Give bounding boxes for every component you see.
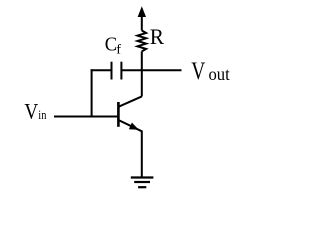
resistor R	[138, 31, 147, 52]
supply arrow (VCC)	[138, 6, 146, 30]
wire: output rail to Vout	[122, 69, 182, 71]
wire: base wire from Vin	[54, 116, 118, 118]
capacitor Cf left plate	[111, 62, 113, 80]
transistor Q1 base bar	[117, 102, 120, 127]
svg-text:out: out	[209, 65, 230, 84]
capacitor Cf right plate	[120, 62, 122, 80]
svg-text:V: V	[24, 98, 38, 124]
wire: feedback branch vertical	[91, 69, 93, 116]
wire: resistor bottom to collector corner	[141, 51, 143, 96]
transistor Q1 collector stroke	[118, 96, 141, 106]
svg-text:C: C	[105, 34, 117, 56]
wire: emitter to ground	[141, 131, 143, 178]
transistor Q1 emitter stroke with arrow	[118, 120, 141, 131]
ground	[131, 178, 154, 188]
svg-text:f: f	[116, 42, 121, 56]
wire: left plate to feedback corner	[91, 69, 112, 71]
svg-text:R: R	[150, 25, 165, 49]
svg-text:in: in	[38, 108, 46, 122]
svg-text:V: V	[191, 56, 206, 84]
